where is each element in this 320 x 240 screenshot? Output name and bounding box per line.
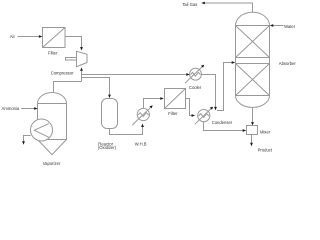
wire: filter F2 to condenser: [186, 99, 193, 116]
reactor R1 (oxidizer capsule): [102, 99, 118, 129]
compressor K1 shaft: [66, 58, 77, 61]
svg-text:Vaporizer: Vaporizer: [43, 161, 61, 166]
arrowhead into filter F1: [39, 35, 43, 38]
wire: tail gas line: [205, 3, 253, 12]
wire: reactor bottom to W.H.B: [110, 127, 143, 135]
svg-text:Mixer: Mixer: [260, 129, 271, 134]
svg-text:Condenser: Condenser: [212, 120, 233, 125]
wire: W.H.B top to filter F2: [144, 99, 161, 109]
wire: line A junction to cooler: [82, 74, 187, 76]
arrowhead into reactor top: [108, 95, 111, 99]
wire: vaporizer riser to junction: [54, 82, 82, 93]
arrowhead into mixer left: [243, 129, 247, 132]
svg-text:Cooler: Cooler: [189, 85, 202, 90]
filter F2 (gas filter square with diagonal): [165, 89, 186, 109]
arrowhead up into W.H.B bottom: [141, 124, 144, 128]
condenser E3 circle: [198, 110, 210, 122]
arrowhead into compressor top: [80, 47, 83, 51]
svg-text:Ammonia: Ammonia: [2, 106, 20, 111]
mixer M1: [247, 126, 258, 135]
wire: heater drain: [24, 136, 31, 142]
wire: condenser bottom to mixer: [204, 122, 244, 131]
arrowhead into absorber left: [232, 61, 236, 64]
vaporizer heater circle E1: [31, 119, 53, 141]
compressor K1 body: [77, 51, 88, 66]
svg-text:W.H.B: W.H.B: [135, 142, 147, 147]
wire: line B junction to reactor: [82, 78, 110, 95]
wire: absorber bottom to mixer: [252, 107, 254, 122]
svg-text:Product: Product: [258, 148, 273, 153]
svg-text:Compressor: Compressor: [51, 70, 74, 75]
absorber packed bed 1: [236, 25, 270, 27]
svg-text:Air: Air: [10, 34, 16, 39]
wire: Air feed line: [18, 36, 40, 38]
absorber column C1: [236, 12, 270, 107]
vaporizer vessel: [38, 93, 67, 155]
svg-text:(Oxidizer): (Oxidizer): [98, 145, 117, 150]
arrowhead down into condenser top: [214, 107, 217, 111]
svg-text:Water: Water: [284, 24, 296, 29]
svg-text:Filter: Filter: [48, 51, 58, 56]
svg-text:Tail Gas: Tail Gas: [182, 2, 197, 7]
wire: condenser to absorber: [217, 63, 232, 111]
wire: cooler to condenser: [201, 75, 215, 108]
arrowhead into filter F2 left: [160, 97, 164, 100]
heat exchanger W.H.B circle: [137, 108, 149, 120]
svg-text:Absorber: Absorber: [279, 61, 297, 66]
arrowhead water into absorber right: [270, 24, 274, 27]
arrowhead into vaporizer left: [34, 107, 38, 110]
arrowhead up into compressor bottom: [80, 67, 83, 71]
arrowhead product down: [250, 143, 253, 147]
arrowhead drain down: [22, 141, 25, 144]
svg-text:Filter: Filter: [168, 111, 178, 116]
wire: junction stack below compressor: [81, 71, 83, 82]
wire: ammonia feed: [21, 108, 34, 110]
wire: water feed: [273, 25, 284, 27]
cooler E2 circle: [190, 68, 202, 80]
absorber packed bed 2: [236, 63, 270, 65]
wire: filter F1 to compressor: [65, 37, 82, 48]
arrowhead into mixer top: [251, 122, 254, 126]
arrowhead into cooler left: [186, 73, 190, 76]
arrowhead into condenser left: [192, 114, 196, 117]
filter F1 (air filter square with diagonal): [43, 28, 66, 48]
arrowhead tail gas left: [201, 2, 205, 5]
wire: mixer to product: [251, 135, 253, 144]
